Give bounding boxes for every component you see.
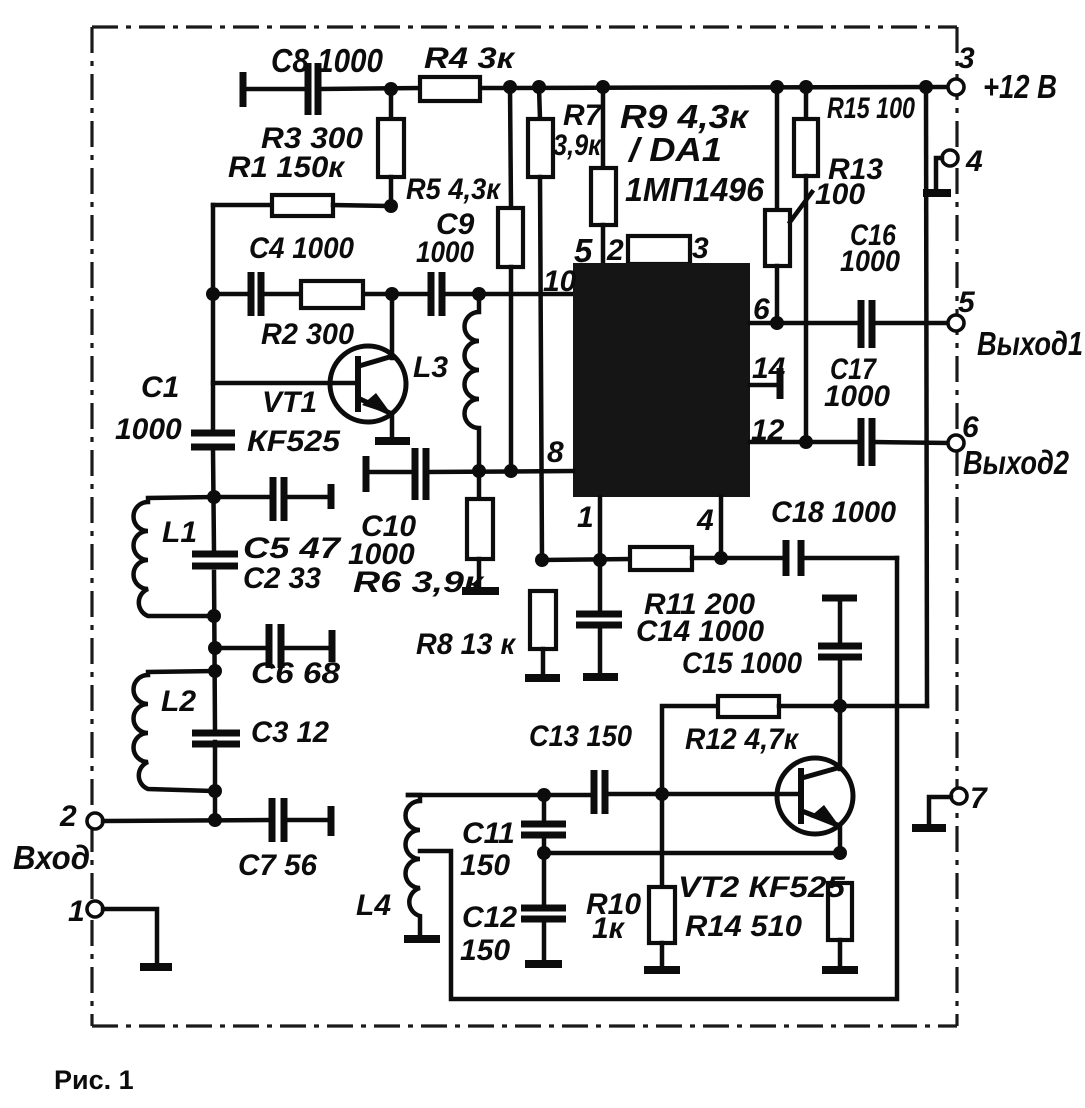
svg-text:7: 7 xyxy=(970,782,988,815)
capacitor C11 xyxy=(460,795,566,882)
capacitor C18 xyxy=(771,496,897,576)
wire VT2 emitter line xyxy=(544,851,840,856)
svg-text:1000: 1000 xyxy=(115,413,182,446)
inductor L4 xyxy=(356,795,420,933)
terminal 1 xyxy=(68,895,157,963)
resistor R3 xyxy=(261,89,404,206)
resistor R10 xyxy=(586,795,675,966)
node L2 bottom xyxy=(208,784,222,798)
wire left column xyxy=(213,205,215,820)
svg-text:1000: 1000 xyxy=(824,380,890,413)
resistor R8 xyxy=(416,591,556,674)
ground R8 xyxy=(525,674,560,682)
svg-text:С6 68: С6 68 xyxy=(251,657,340,690)
capacitor C10 xyxy=(348,448,573,571)
svg-text:R2 300: R2 300 xyxy=(261,318,354,351)
resistor R11 xyxy=(630,547,783,621)
svg-text:L2: L2 xyxy=(161,685,196,718)
ground C14 xyxy=(583,673,618,681)
resistor R4 xyxy=(420,42,516,101)
svg-text:1000: 1000 xyxy=(840,245,900,278)
wire pin 12 line xyxy=(750,442,948,443)
junction R12/C15/VT2 collector xyxy=(833,699,847,713)
resistor R6 xyxy=(353,471,493,599)
inductor L3 xyxy=(413,294,479,471)
svg-text:R4 3к: R4 3к xyxy=(424,42,516,75)
resistor between pins 2-3 on IC xyxy=(628,236,690,264)
junction R13 on +12V rail xyxy=(770,80,784,94)
svg-text:С8 1000: С8 1000 xyxy=(271,42,384,79)
capacitor C3 xyxy=(192,716,329,749)
junction pin1/C14 xyxy=(593,553,607,567)
svg-text:100: 100 xyxy=(815,178,865,211)
ground L4 xyxy=(404,935,440,943)
terminal 7 xyxy=(929,782,988,824)
node C1/L1/C5 xyxy=(207,490,221,504)
svg-text:R9 4,3к: R9 4,3к xyxy=(620,98,751,135)
svg-text:4: 4 xyxy=(696,504,714,537)
capacitor C1 xyxy=(115,371,235,447)
terminal 5 output1 xyxy=(948,286,1083,362)
svg-text:3: 3 xyxy=(692,232,709,265)
resistor R14 xyxy=(685,883,852,966)
terminal 3 +12V xyxy=(948,42,1057,105)
svg-text:5: 5 xyxy=(574,232,593,269)
junction R2/C9/VT1 collector xyxy=(385,287,399,301)
svg-text:R11 200: R11 200 xyxy=(644,588,755,621)
svg-text:R8 13 к: R8 13 к xyxy=(416,628,517,661)
wire +12V drop right xyxy=(926,87,927,706)
wire C4/R2/C9 line to pin 10 xyxy=(213,292,573,297)
ground terminal 4 xyxy=(923,189,951,197)
resistor R15 xyxy=(794,87,915,442)
svg-text:+12 В: +12 В xyxy=(983,68,1057,105)
capacitor C16 xyxy=(840,219,900,348)
resistor R9 xyxy=(591,87,765,264)
junction C4 line left xyxy=(206,287,220,301)
ground terminal 7 xyxy=(912,824,946,832)
capacitor C5 xyxy=(214,477,342,565)
junction R3/R1 xyxy=(384,199,398,213)
svg-text:С4 1000: С4 1000 xyxy=(249,232,354,265)
junction R5 on +12V rail xyxy=(503,80,517,94)
svg-text:С13 150: С13 150 xyxy=(529,720,632,753)
svg-text:Выход2: Выход2 xyxy=(963,444,1070,481)
svg-text:С11: С11 xyxy=(462,817,515,850)
terminal 2 input xyxy=(13,800,103,876)
svg-text:VT1: VT1 xyxy=(262,386,317,419)
wire R1 line xyxy=(213,203,272,208)
svg-text:КF525: КF525 xyxy=(247,425,341,458)
junction pin6/R13 xyxy=(770,316,784,330)
svg-text:1: 1 xyxy=(577,501,594,534)
svg-text:С5 47: С5 47 xyxy=(243,532,342,565)
ground C12 xyxy=(525,960,562,968)
svg-text:1: 1 xyxy=(68,895,85,928)
svg-text:R15 100: R15 100 xyxy=(827,92,915,125)
svg-text:1к: 1к xyxy=(592,912,626,945)
IC DA1 body xyxy=(573,263,750,497)
node L2 top xyxy=(208,664,222,678)
ground R10 xyxy=(644,966,680,974)
junction R7 on +12V rail xyxy=(532,80,546,94)
svg-text:VT2 КF525: VT2 КF525 xyxy=(678,871,846,904)
node C6 line xyxy=(208,641,222,655)
junction pin12/R15 xyxy=(799,435,813,449)
svg-text:1МП1496: 1МП1496 xyxy=(625,171,765,208)
dashed enclosure border xyxy=(92,27,957,1026)
capacitor C6 xyxy=(215,624,340,690)
junction VT2 emitter/R14 xyxy=(833,846,847,860)
inductor L2 xyxy=(134,671,216,791)
svg-text:150: 150 xyxy=(460,934,510,967)
svg-text:10: 10 xyxy=(543,265,577,298)
node L1 bottom xyxy=(207,609,221,623)
capacitor C17 xyxy=(824,353,890,466)
ground VT1 emitter xyxy=(375,437,410,445)
svg-text:150: 150 xyxy=(460,849,510,882)
svg-text:2: 2 xyxy=(606,234,624,267)
terminal 6 output2 xyxy=(948,411,1070,481)
capacitor C15 xyxy=(682,598,862,706)
wire VT2 base line right of C13 xyxy=(607,792,800,797)
svg-text:С18 1000: С18 1000 xyxy=(771,496,896,529)
svg-text:С15 1000: С15 1000 xyxy=(682,647,802,680)
terminal 4 xyxy=(936,145,983,190)
wire pin1/R11 line xyxy=(542,497,630,560)
capacitor C8 xyxy=(243,42,384,115)
svg-text:С12: С12 xyxy=(462,901,517,934)
resistor R2 xyxy=(261,281,363,351)
svg-text:R7: R7 xyxy=(563,99,603,132)
junction +12V drop on rail xyxy=(919,80,933,94)
junction C11/base line xyxy=(537,788,551,802)
junction R7/R8 node xyxy=(535,553,549,567)
svg-text:Выход1: Выход1 xyxy=(977,325,1083,362)
resistor R5 xyxy=(406,87,523,471)
transistor VT1 xyxy=(213,294,406,458)
transistor VT2 xyxy=(777,706,853,853)
svg-text:L1: L1 xyxy=(162,516,197,549)
svg-text:4: 4 xyxy=(965,145,983,178)
wire pin 4 xyxy=(719,497,724,558)
junction R9 on +12V rail xyxy=(596,80,610,94)
svg-text:С1: С1 xyxy=(141,371,179,404)
resistor R1 xyxy=(228,151,391,216)
svg-text:5: 5 xyxy=(958,286,976,319)
capacitor C12 xyxy=(460,853,566,967)
capacitor C13 xyxy=(529,720,632,814)
inductor L1 xyxy=(134,497,215,616)
svg-text:3,9к: 3,9к xyxy=(553,129,603,162)
svg-text:3: 3 xyxy=(958,42,975,75)
junction pin8/L3/R6 xyxy=(472,464,486,478)
junction R15 on +12V rail xyxy=(799,80,813,94)
resistor R12 xyxy=(662,696,927,792)
svg-text:С7 56: С7 56 xyxy=(238,849,317,882)
svg-text:С2 33: С2 33 xyxy=(243,562,321,595)
junction R3/C8/R4 on +12V rail xyxy=(384,82,398,96)
ground R14 xyxy=(822,966,858,974)
svg-text:2: 2 xyxy=(59,800,77,833)
capacitor C9 xyxy=(416,208,475,316)
resistor R7 xyxy=(528,87,603,560)
svg-text:R1 150к: R1 150к xyxy=(228,151,346,184)
junction pin8/R5 xyxy=(504,464,518,478)
wire feedback right column xyxy=(420,558,897,999)
svg-text:R14 510: R14 510 xyxy=(685,910,802,943)
capacitor C4 xyxy=(249,232,354,316)
svg-text:/ DA1: / DA1 xyxy=(627,131,722,168)
svg-text:Вход: Вход xyxy=(13,839,90,876)
wire +12V rail top xyxy=(247,87,948,89)
svg-text:L3: L3 xyxy=(413,351,448,384)
svg-text:L4: L4 xyxy=(356,889,391,922)
node input line xyxy=(208,813,222,827)
junction pin10/L3 xyxy=(472,287,486,301)
wire VT2 base line xyxy=(408,793,592,798)
capacitor C7 xyxy=(238,798,331,882)
wire input line xyxy=(103,820,270,821)
svg-text:R5 4,3к: R5 4,3к xyxy=(406,173,502,206)
pin 14 stub xyxy=(750,368,780,399)
ground R6 xyxy=(462,587,499,595)
svg-text:Рис. 1: Рис. 1 xyxy=(54,1065,134,1095)
capacitor C14 xyxy=(576,560,764,673)
junction C11/C12/emitter line xyxy=(537,846,551,860)
ground terminal 1 xyxy=(140,963,172,971)
resistor R13 xyxy=(765,87,883,323)
svg-text:С3 12: С3 12 xyxy=(251,716,329,749)
wire pin 6 line xyxy=(750,321,948,326)
svg-text:1000: 1000 xyxy=(416,236,474,269)
svg-text:8: 8 xyxy=(547,436,564,469)
junction pin4/R11/C18 xyxy=(714,551,728,565)
junction R10/R12/VT2 base xyxy=(655,787,669,801)
svg-text:R12 4,7к: R12 4,7к xyxy=(685,723,800,756)
svg-text:6: 6 xyxy=(962,411,979,444)
capacitor C2 xyxy=(192,554,321,595)
